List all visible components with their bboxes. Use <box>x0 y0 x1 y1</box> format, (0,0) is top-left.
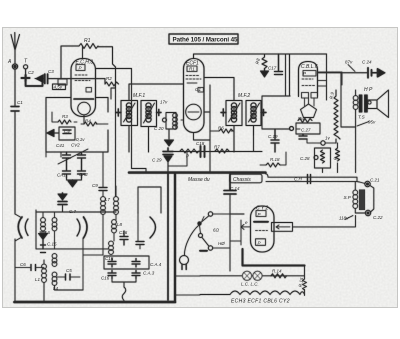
svg-text:C2: C2 <box>28 70 34 75</box>
svg-text:95v: 95v <box>368 120 376 125</box>
svg-text:C.28: C.28 <box>300 156 310 161</box>
svg-text:L.C. L.C.: L.C. L.C. <box>241 282 259 287</box>
svg-text:CA1: CA1 <box>57 173 66 178</box>
svg-text:87v: 87v <box>345 60 353 65</box>
svg-text:Pathé 105 / Marconi 45: Pathé 105 / Marconi 45 <box>173 37 239 44</box>
svg-text:6Ω: 6Ω <box>213 228 220 233</box>
svg-text:C5: C5 <box>66 268 72 273</box>
svg-text:C.B.L.6: C.B.L.6 <box>301 64 318 70</box>
svg-text:C16: C16 <box>101 276 110 281</box>
svg-text:0,1v: 0,1v <box>76 137 85 142</box>
svg-text:C.A.3: C.A.3 <box>143 271 155 276</box>
svg-text:C1: C1 <box>17 100 23 105</box>
svg-text:L8: L8 <box>117 222 123 227</box>
svg-text:L4: L4 <box>53 286 59 291</box>
svg-text:C.21: C.21 <box>370 178 380 183</box>
svg-text:C Y 2: C Y 2 <box>256 206 269 212</box>
svg-text:L7: L7 <box>105 197 111 202</box>
svg-text:M.F.1: M.F.1 <box>133 93 145 99</box>
svg-text:C16: C16 <box>119 230 128 235</box>
svg-text:C.22: C.22 <box>373 215 383 220</box>
svg-text:ECH3 ECF1 CBL6 CY2: ECH3 ECF1 CBL6 CY2 <box>231 299 290 305</box>
svg-text:P: P <box>258 241 261 246</box>
svg-text:H P: H P <box>364 87 373 93</box>
svg-text:A: A <box>7 59 12 65</box>
svg-text:C41: C41 <box>56 143 65 148</box>
svg-text:R2: R2 <box>106 76 112 81</box>
svg-text:C6: C6 <box>20 262 26 267</box>
svg-text:C.7: C.7 <box>69 209 77 214</box>
svg-text:R1: R1 <box>84 38 91 44</box>
svg-text:C 20: C 20 <box>154 126 164 131</box>
svg-text:R1: R1 <box>189 67 195 72</box>
svg-text:P: P <box>186 154 189 159</box>
svg-text:Rw: Rw <box>298 116 305 121</box>
svg-text:R.14: R.14 <box>272 269 282 274</box>
svg-text:G1: G1 <box>195 87 202 92</box>
svg-text:C4: C4 <box>64 129 70 134</box>
svg-text:C.H: C.H <box>294 177 303 182</box>
svg-text:C.15: C.15 <box>47 242 57 247</box>
svg-text:C.27: C.27 <box>301 128 311 133</box>
svg-text:Chassis: Chassis <box>233 177 251 183</box>
svg-text:CV2: CV2 <box>71 143 80 148</box>
svg-text:C15: C15 <box>105 256 114 261</box>
svg-text:L6: L6 <box>45 230 51 235</box>
svg-text:C3: C3 <box>48 69 54 74</box>
svg-text:R.18: R.18 <box>270 157 280 162</box>
svg-text:R3: R3 <box>62 114 68 119</box>
svg-text:P: P <box>79 66 82 71</box>
svg-text:S.P: S.P <box>344 195 351 200</box>
svg-text:118v: 118v <box>339 216 349 221</box>
svg-text:C.19: C.19 <box>268 134 278 139</box>
svg-text:P: P <box>303 71 306 76</box>
svg-text:C18: C18 <box>196 141 205 146</box>
svg-text:C 24: C 24 <box>362 60 372 65</box>
svg-text:C.A.4: C.A.4 <box>150 262 162 267</box>
svg-text:T.S: T.S <box>358 115 365 120</box>
svg-text:C9: C9 <box>92 183 98 188</box>
svg-text:CA2: CA2 <box>79 172 88 177</box>
svg-text:R6: R6 <box>218 126 224 131</box>
svg-text:R4: R4 <box>85 119 91 124</box>
svg-text:L1: L1 <box>35 277 41 282</box>
svg-text:C.14: C.14 <box>230 186 240 191</box>
svg-text:C17: C17 <box>268 66 277 71</box>
svg-text:M.F.2: M.F.2 <box>238 93 250 99</box>
svg-text:1v: 1v <box>325 136 331 141</box>
svg-text:4,5v: 4,5v <box>54 85 63 90</box>
svg-text:17v: 17v <box>160 100 168 105</box>
svg-text:R7: R7 <box>214 145 220 150</box>
svg-text:P: P <box>258 212 261 217</box>
svg-text:HØ: HØ <box>218 241 225 246</box>
svg-text:Masse du: Masse du <box>188 177 210 183</box>
svg-text:C 29: C 29 <box>152 158 162 163</box>
